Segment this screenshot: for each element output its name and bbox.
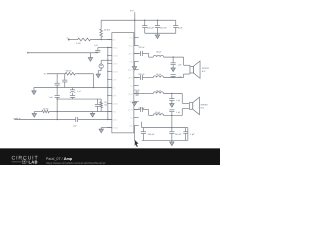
svg-text:BYP: BYP (113, 94, 117, 97)
capacitor C4 1uF input (97, 48, 99, 51)
ground ch1 feedback (88, 58, 92, 62)
IC U1 pin stubs and pin labels (107, 39, 112, 41)
capacitor C19 100nF (171, 128, 173, 132)
ground output filter 2 (170, 104, 174, 108)
svg-text:100 nF: 100 nF (160, 26, 167, 29)
wire long feedback (28, 52, 98, 54)
svg-text:NC: NC (130, 116, 133, 119)
capacitor C3 1uF (175, 20, 177, 25)
svg-text:1 µF: 1 µF (49, 96, 54, 99)
svg-text:IN2: IN2 (113, 86, 116, 89)
svg-text:PGND: PGND (113, 126, 119, 129)
resistor R2 pullup 56k (100, 20, 102, 28)
wire IC pin12 left (101, 127, 112, 129)
wire source bottom lead (100, 68, 102, 70)
resistor R1 1k (76, 38, 92, 41)
wire to source (101, 59, 112, 61)
svg-text:SGND: SGND (113, 54, 119, 57)
svg-text:IN1: IN1 (113, 38, 116, 41)
wire IC right row9 ground stem (133, 101, 135, 104)
wire IC right row4 ground stem (133, 62, 135, 67)
junction 9V rail (134, 20, 135, 21)
svg-text:1 µF: 1 µF (178, 26, 183, 29)
wire spk2 top (181, 94, 183, 104)
svg-text:SPKR1: SPKR1 (202, 67, 210, 70)
CircuitLab logo (12, 156, 106, 165)
svg-text:9 V: 9 V (130, 10, 134, 13)
wire ground stem ch2 (92, 112, 94, 114)
ground top bank (155, 35, 159, 39)
svg-text:1 µF: 1 µF (94, 44, 99, 47)
junction bus input2 (107, 119, 108, 120)
junction filter2 rail (171, 127, 172, 128)
svg-text:OUT3: OUT3 (128, 92, 133, 95)
capacitor C1 100uF (144, 20, 146, 25)
wire input1 (69, 39, 76, 41)
wire leg2A (134, 93, 136, 95)
wire IC pin2 left (98, 47, 112, 49)
svg-text:100 µF: 100 µF (148, 133, 155, 136)
resistor R4 50k vertical (100, 99, 102, 101)
resistor R5 75k (40, 110, 51, 113)
wire left vertical (56, 74, 58, 84)
junction leg2B filter (171, 115, 172, 116)
svg-text:OUT4: OUT4 (128, 108, 133, 111)
wire top bank ground stem (156, 33, 158, 35)
junction C2 rail (157, 20, 158, 21)
wire top bank bottom rail (145, 32, 176, 34)
ground output filter 1 (171, 68, 175, 72)
wire input2 left (14, 119, 76, 121)
junction input node (100, 39, 101, 40)
svg-text:SPKR2: SPKR2 (201, 103, 209, 106)
capacitor C11 1uF (172, 57, 174, 63)
node wire end (27, 52, 29, 54)
wire bottom bank ground stem (171, 140, 173, 142)
svg-text:MUTE: MUTE (113, 70, 119, 73)
wire shunt ground stem (33, 112, 35, 114)
svg-text:1 µF: 1 µF (73, 125, 78, 128)
wire top supply rail (101, 19, 176, 21)
footer bar (0, 148, 220, 165)
svg-text:OUT1: OUT1 (128, 52, 133, 55)
svg-text:1 µF: 1 µF (177, 75, 182, 78)
svg-text:STBY: STBY (113, 62, 118, 65)
junction leg2A filter (171, 93, 172, 94)
svg-text:10 µH: 10 µH (156, 90, 162, 93)
svg-text:GND: GND (129, 124, 134, 127)
svg-text:100 nF: 100 nF (175, 133, 182, 136)
capacitor C8 (96, 99, 98, 104)
ground IC right 2 (132, 102, 136, 106)
capacitor C9 1uF series (75, 117, 77, 122)
wire spk2 bottom (181, 109, 183, 116)
svg-text:8 Ω: 8 Ω (202, 70, 206, 73)
svg-text:https://www.circuitlab.com/cir: https://www.circuitlab.com/circuit/c5xw3… (46, 161, 105, 165)
svg-text:IN2B: IN2B (113, 118, 118, 121)
svg-text:SVR: SVR (113, 78, 117, 81)
svg-text:56 kΩ: 56 kΩ (104, 29, 110, 32)
svg-text:in: in (66, 37, 67, 40)
capacitor C12 1uF (171, 74, 176, 76)
junction left vert wireB (56, 87, 57, 88)
svg-text:VCC: VCC (129, 36, 133, 39)
svg-text:AGND: AGND (113, 102, 119, 105)
capacitor C22 on left vertical (55, 95, 60, 97)
wire left bus (107, 48, 109, 120)
svg-text:100 µF: 100 µF (147, 26, 154, 29)
svg-text:fb: fb (44, 73, 46, 76)
wire ch2 corner (92, 74, 94, 88)
source V1 probe circle (99, 64, 103, 68)
wire legB cap tail (141, 122, 143, 128)
capacitor C2 100nF (156, 20, 158, 25)
svg-text:10 µH: 10 µH (155, 111, 161, 114)
junction pin7 corner (93, 87, 94, 88)
cursor arrow (135, 140, 139, 147)
capacitor C21 on left vertical (55, 82, 60, 84)
wire shunt to pin10 (51, 111, 112, 113)
wire 9V drop (134, 12, 136, 45)
svg-text:1 µF: 1 µF (77, 90, 82, 93)
svg-text:BOOT: BOOT (128, 68, 134, 71)
ground IC left (99, 129, 103, 133)
speaker SPKR1 (190, 66, 193, 73)
svg-text:PVCC: PVCC (113, 46, 119, 49)
svg-text:56 kΩ: 56 kΩ (66, 70, 72, 73)
ground bottom bank (170, 142, 174, 146)
junction left vert wireC (56, 98, 57, 99)
capacitor C20 1uF (185, 128, 187, 132)
resistor R3 56k (64, 72, 77, 75)
svg-text:FB2: FB2 (113, 110, 116, 113)
wire+capacitor C13 220nF leg1B (134, 77, 140, 79)
svg-text:NC: NC (130, 84, 133, 87)
junction left vert input2 (56, 119, 57, 120)
ground source (96, 74, 100, 78)
capacitor C6 polarized (72, 88, 74, 90)
svg-text:220 nF: 220 nF (134, 89, 141, 92)
svg-text:1 kΩ: 1 kΩ (76, 42, 81, 45)
svg-text:1 µF: 1 µF (190, 133, 195, 136)
capacitor C5 1uF (64, 74, 66, 80)
ground IC right (132, 67, 136, 71)
svg-text:OUT2: OUT2 (128, 76, 133, 79)
wire C mid (57, 98, 101, 100)
ground ch2 mid (90, 113, 94, 117)
wire pin7 ground stem (33, 88, 35, 91)
capacitor C16 1uF (169, 109, 174, 111)
wire IC pin7 row (34, 87, 112, 89)
wire filter2 to rail (171, 115, 173, 127)
wire+capacitor C17 220nF leg2B (134, 109, 140, 111)
ground shunt (32, 113, 36, 117)
svg-text:8 Ω: 8 Ω (201, 106, 205, 109)
svg-text:1 µF: 1 µF (176, 111, 181, 114)
wire shunt row (34, 111, 40, 113)
junction left vert shunt (56, 111, 57, 112)
wire spk1 top (183, 57, 185, 65)
junction leg1B filter (172, 77, 173, 78)
junction leg1A filter (172, 56, 173, 57)
wire pgnd stem (100, 128, 102, 130)
svg-text:75 kΩ: 75 kΩ (43, 107, 49, 110)
svg-text:kΩ: kΩ (105, 104, 108, 107)
ground pin7 left (32, 91, 36, 95)
svg-text:LAB: LAB (29, 160, 38, 165)
wire source top lead (100, 60, 102, 64)
wire ch2 top (47, 73, 64, 75)
svg-text:1 µF: 1 µF (176, 99, 181, 102)
svg-text:220 nF: 220 nF (138, 107, 145, 110)
svg-text:220 nF: 220 nF (138, 46, 145, 49)
svg-text:1 µF: 1 µF (177, 63, 182, 66)
capacitor C7 (70, 95, 75, 97)
capacitor C15 1uF (171, 94, 173, 99)
junction C1 rail (144, 20, 145, 21)
junction bus pin2 (107, 47, 108, 48)
wire bottom bank bottom rail (142, 139, 188, 141)
speaker SPKR2 (189, 103, 192, 110)
op-amp IC U1 body (112, 33, 134, 133)
svg-text:GND: GND (129, 60, 134, 63)
junction bus source (107, 60, 108, 61)
svg-text:10 µH: 10 µH (156, 73, 162, 76)
svg-text:10 µH: 10 µH (156, 51, 162, 54)
node input 1 terminal (68, 39, 70, 41)
wire bottom bank top rail (142, 127, 188, 129)
svg-text:VCC2: VCC2 (128, 44, 133, 47)
wire ground stem ch1 (89, 53, 91, 58)
capacitor C18 100uF (142, 128, 144, 132)
wire+capacitor C10 220nF leg1A (134, 53, 140, 55)
wire spk1 bottom (183, 74, 185, 77)
svg-text:220 nF: 220 nF (138, 73, 145, 76)
wire input2 right (78, 119, 112, 121)
wire IC right pin12 down (134, 126, 136, 141)
wire R1 to IC pin1 (92, 39, 112, 41)
